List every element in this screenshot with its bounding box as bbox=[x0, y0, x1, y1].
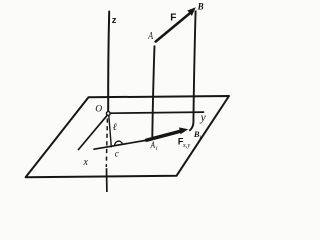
svg-text:x,y: x,y bbox=[182, 142, 191, 149]
vector F arrowhead bbox=[187, 7, 196, 16]
wire C-line thin bbox=[94, 140, 149, 149]
svg-text:z: z bbox=[112, 15, 117, 26]
wire O to C bbox=[109, 115, 112, 146]
wire vertical below plane bbox=[106, 168, 108, 192]
svg-text:F: F bbox=[170, 12, 176, 23]
vector Fxy shaft bbox=[147, 131, 183, 141]
svg-text:x: x bbox=[83, 157, 89, 168]
vector F shaft bbox=[156, 11, 193, 42]
angle arc at C bbox=[115, 141, 123, 146]
dashed line below origin bbox=[106, 119, 107, 168]
wire B drop bbox=[189, 11, 195, 131]
wire A drop bbox=[152, 46, 154, 138]
svg-text:A: A bbox=[147, 30, 153, 43]
plane (xy-plane parallelogram) bbox=[26, 96, 229, 177]
svg-text:1: 1 bbox=[155, 146, 158, 152]
vector Fxy arrowhead bbox=[179, 127, 188, 134]
z-axis bbox=[108, 12, 109, 112]
svg-text:y: y bbox=[200, 112, 207, 124]
origin node O bbox=[106, 112, 110, 116]
svg-text:1: 1 bbox=[199, 135, 202, 141]
x-axis bbox=[79, 116, 107, 150]
svg-text:O: O bbox=[95, 105, 102, 115]
svg-text:ℓ: ℓ bbox=[113, 122, 117, 133]
svg-text:c: c bbox=[115, 149, 120, 159]
svg-text:B: B bbox=[197, 2, 204, 12]
y-axis bbox=[110, 112, 203, 113]
